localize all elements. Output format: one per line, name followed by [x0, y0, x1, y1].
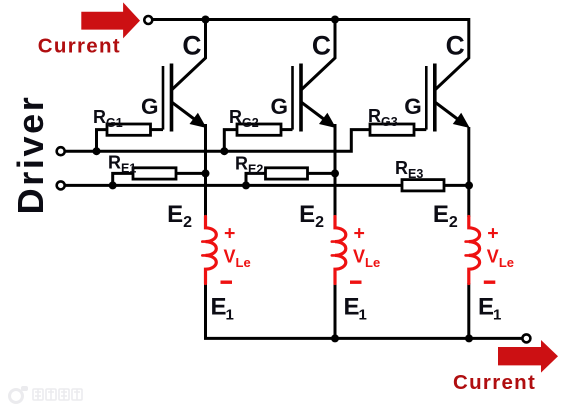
svg-text:VLe: VLe [224, 246, 251, 270]
svg-text:Current: Current [38, 34, 121, 57]
svg-text:RG1: RG1 [93, 107, 123, 130]
svg-text:RE2: RE2 [235, 153, 263, 176]
svg-text:G: G [270, 94, 288, 119]
svg-text:Driver: Driver [10, 95, 51, 215]
svg-text:E2: E2 [167, 201, 192, 231]
svg-text:C: C [312, 30, 331, 60]
svg-text:E1: E1 [344, 294, 367, 324]
svg-text:VLe: VLe [487, 246, 514, 270]
svg-text:E1: E1 [478, 294, 501, 324]
svg-text:E2: E2 [433, 201, 458, 231]
svg-text:G: G [141, 94, 159, 119]
svg-text:G: G [404, 94, 422, 119]
svg-text:+: + [487, 223, 498, 245]
svg-text:E2: E2 [299, 201, 324, 231]
svg-text:RG3: RG3 [368, 106, 398, 129]
svg-text:RE3: RE3 [395, 158, 423, 181]
svg-text:C: C [446, 30, 465, 60]
svg-text:VLe: VLe [353, 246, 380, 270]
svg-text:+: + [354, 223, 365, 245]
svg-text:+: + [224, 223, 235, 245]
svg-text:C: C [182, 30, 201, 60]
svg-text:RE1: RE1 [108, 152, 136, 175]
svg-text:E1: E1 [211, 294, 234, 324]
svg-text:Current: Current [453, 371, 536, 394]
svg-text:RG2: RG2 [229, 107, 259, 130]
